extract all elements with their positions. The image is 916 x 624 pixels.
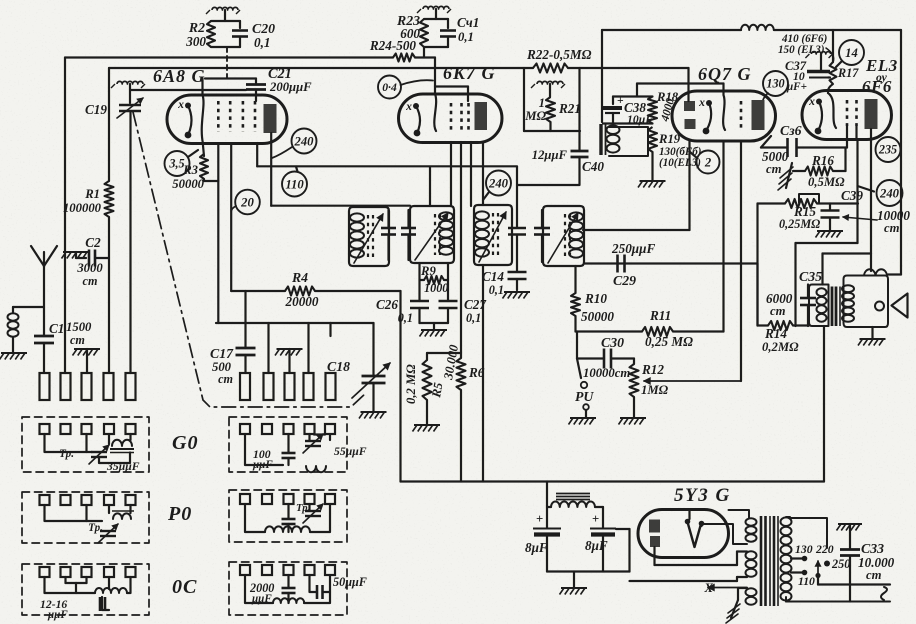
svg-text:R2: R2 <box>188 20 205 35</box>
svg-text:12μμF: 12μμF <box>532 148 568 162</box>
wire C38 box top <box>613 95 653 97</box>
terminal PU2 <box>583 404 589 410</box>
power transformer bobbin2 <box>737 550 747 552</box>
coil box B1 oscillator <box>349 207 389 266</box>
module OC-left pin1 <box>40 567 50 577</box>
wire R21 drop <box>523 68 525 131</box>
wire screen y205 <box>271 205 410 207</box>
resistor R17 <box>832 30 834 62</box>
OC-left caps <box>99 597 102 611</box>
coil out primary <box>817 288 827 296</box>
GO-right trimmer <box>305 440 321 442</box>
tube 6A8G grid1 wavy <box>202 79 204 144</box>
module PO-left pin2 <box>61 495 71 505</box>
OC-left coil <box>95 588 127 593</box>
wire pin3 stub <box>86 349 88 373</box>
wire y166 to IF <box>257 165 517 167</box>
wire grid1 top bar <box>205 77 256 79</box>
capacitor C29 <box>616 255 619 273</box>
svg-text:μμF: μμF <box>47 609 68 621</box>
PO-right trimmer <box>305 510 321 512</box>
svg-text:R19: R19 <box>658 132 681 146</box>
ground C19 top <box>117 81 143 84</box>
module GO-left pin4 <box>104 424 114 434</box>
resistor R12 pot <box>633 359 635 365</box>
svg-text:ст: ст <box>218 372 233 386</box>
pin P1-5 <box>126 373 136 400</box>
svg-text:Тр.: Тр. <box>88 522 103 534</box>
tube 6Q7G grid dashes <box>740 101 743 130</box>
svg-text:600: 600 <box>400 26 420 41</box>
terminal 250 dot <box>824 561 830 567</box>
coil box B2 oscillator <box>410 206 454 263</box>
module OC-left pin3 <box>82 567 92 577</box>
ground C33 <box>838 523 862 525</box>
module PO-left pin1 <box>40 495 50 505</box>
tube EL3 anode <box>865 99 878 129</box>
wire x758 drop <box>756 204 758 326</box>
svg-text:8μF: 8μF <box>525 540 548 555</box>
capacitor C36 <box>786 138 789 157</box>
wire EL3 anode down <box>870 129 872 140</box>
tube 5Y3G envelope <box>638 510 729 558</box>
wire C19 down to pin <box>129 111 131 373</box>
power transformer bobbin3 <box>746 588 757 596</box>
wire cap2 drop <box>602 507 604 528</box>
resistor R10 <box>571 293 580 316</box>
wire R2C20 top <box>224 10 226 21</box>
ground C18 <box>361 411 387 413</box>
capacitor C21 <box>255 79 257 84</box>
wire 20 tick <box>231 206 236 211</box>
pin P2-3 <box>285 373 295 400</box>
wire grid to R3 <box>203 144 204 157</box>
wire 5Y3G top right <box>729 510 750 518</box>
svg-text:Cз6: Cз6 <box>780 123 802 138</box>
wire C33 stem <box>849 524 851 549</box>
coil antenna small <box>12 307 14 313</box>
speaker cone <box>892 294 908 318</box>
tube EL3 grid dashes <box>846 100 849 126</box>
capacitor B2 tuning <box>407 210 409 227</box>
svg-text:R9: R9 <box>420 264 436 278</box>
wire R15 box <box>799 194 819 203</box>
resistor R23 <box>420 19 428 47</box>
label AC <box>881 587 887 600</box>
ground C26C27 <box>421 329 447 331</box>
svg-text:10000ст: 10000ст <box>583 366 630 380</box>
svg-text:1: 1 <box>539 96 545 110</box>
PO-left coil <box>112 510 134 512</box>
transformer out secondary box <box>844 276 889 328</box>
svg-text:Тр.: Тр. <box>296 503 310 514</box>
GO-right cap <box>282 452 296 455</box>
svg-text:200μμF: 200μμF <box>269 80 312 94</box>
svg-text:x: x <box>808 95 815 108</box>
capacitor C14 <box>516 262 518 271</box>
svg-text:C26: C26 <box>376 297 398 312</box>
module box GO-right <box>229 417 347 472</box>
module OC-left pin5 <box>126 567 136 577</box>
module PO-right pin3 <box>284 494 294 504</box>
wire C36 to R16 <box>844 148 846 172</box>
wire C40 jog y185 <box>517 184 579 186</box>
ground filter <box>573 572 575 588</box>
wire x517 drop <box>516 167 518 228</box>
OC-right cap2 <box>316 585 319 599</box>
svg-text:3,5: 3,5 <box>168 157 184 171</box>
antenna <box>43 266 45 336</box>
pin P2-5 <box>326 373 336 400</box>
svg-text:x: x <box>698 96 705 109</box>
wire C40 top <box>578 68 580 151</box>
svg-text:8μF: 8μF <box>585 538 608 553</box>
svg-text:240: 240 <box>879 186 900 200</box>
resistor R5 <box>426 353 428 360</box>
wire y68 into diode <box>687 68 689 101</box>
tube 5Y3G plates <box>649 520 660 533</box>
svg-text:μμF: μμF <box>252 459 273 471</box>
terminal PU <box>577 359 581 379</box>
capacitor C33 <box>840 548 860 551</box>
resistor R9 <box>424 276 444 284</box>
ground pin3 mid <box>74 348 100 350</box>
module OC-right pin1 <box>240 565 250 575</box>
tube 6Q7G diode plates <box>684 101 695 111</box>
wire anode lead <box>270 133 272 206</box>
svg-text:X: X <box>704 581 714 595</box>
capacitor B3 tuning <box>508 227 526 230</box>
svg-text:μF+: μF+ <box>786 81 807 93</box>
wire y230 det <box>583 229 690 231</box>
svg-text:55μμF: 55μμF <box>334 445 367 458</box>
svg-text:0,1: 0,1 <box>254 35 270 50</box>
ground R21 top <box>537 81 563 84</box>
wire stair y243 <box>796 242 858 244</box>
ground R16 slant <box>786 163 792 188</box>
circle 0-4 <box>378 76 401 99</box>
capacitor C38 <box>603 106 622 110</box>
svg-text:R16: R16 <box>811 153 834 168</box>
svg-text:ст: ст <box>770 304 786 318</box>
wire 6K7G pin1 <box>450 142 452 206</box>
module box PO-left <box>22 492 149 543</box>
svg-text:50μμF: 50μμF <box>333 575 367 589</box>
svg-text:0,1: 0,1 <box>398 311 413 325</box>
wire 14 tick <box>836 61 842 67</box>
module box GO-left <box>22 417 149 472</box>
resistor R2 <box>207 21 215 47</box>
OC-right wiring <box>245 575 273 603</box>
choke filter coil <box>547 506 551 508</box>
svg-text:2: 2 <box>704 155 712 169</box>
ground C39 <box>817 230 843 232</box>
GO-left wiring <box>45 434 87 452</box>
capacitor C30 <box>603 349 606 369</box>
circle 240 out <box>877 180 903 206</box>
wire anode stair drop <box>870 254 872 272</box>
wire 6Q7G top bracket <box>637 82 724 84</box>
svg-text:P0: P0 <box>167 503 192 525</box>
svg-text:300: 300 <box>185 34 206 49</box>
tube 6A8G grid dashes <box>217 101 220 132</box>
PO-right coil <box>265 526 310 532</box>
module OC-right pin3 <box>284 565 294 575</box>
wire 6Q7G pin3 down <box>740 141 742 381</box>
coil box B4 IF2 pri <box>543 206 584 266</box>
tube 6Q7G grid curve <box>723 84 725 131</box>
svg-text:0,1: 0,1 <box>466 311 481 325</box>
svg-text:R11: R11 <box>649 308 671 323</box>
wire stair x795 <box>794 243 796 326</box>
ground R19 <box>640 180 666 182</box>
wire grid entry <box>828 84 833 93</box>
svg-text:R10: R10 <box>584 291 607 306</box>
wire label curve <box>826 48 834 62</box>
resistor R21 <box>549 84 551 97</box>
module GO-left pin5 <box>126 424 136 434</box>
wire jog x757 <box>724 262 758 264</box>
coil choke top <box>741 25 774 30</box>
module GO-right pin5 <box>325 424 335 434</box>
resistor R11 <box>642 327 673 336</box>
wire left frame x65 <box>64 58 66 374</box>
speaker voice coil <box>864 269 887 275</box>
wire X arrow <box>708 587 747 589</box>
tube 6K7G grid dashes <box>450 103 453 133</box>
svg-text:0·4: 0·4 <box>382 81 397 94</box>
wire bottom rail <box>401 480 825 482</box>
capacitor C37 <box>807 70 830 74</box>
pin P1-3 <box>82 373 92 400</box>
wire anode diag C36 <box>761 136 771 148</box>
ground pin2-3 <box>277 348 303 350</box>
svg-text:110: 110 <box>798 575 815 588</box>
resistor R18 <box>648 97 657 124</box>
svg-text:0,25 МΩ: 0,25 МΩ <box>645 334 693 349</box>
tube 6K7G envelope <box>399 94 502 143</box>
capacitor B1 tuning <box>387 210 389 227</box>
resistor R15 <box>785 199 817 208</box>
pin P1-4 <box>104 373 114 400</box>
resistor R4 <box>285 287 315 296</box>
ground slant X <box>731 600 738 618</box>
wire pin4 lead <box>256 143 258 166</box>
wire 6K7G pin3 <box>470 142 472 206</box>
svg-text:0,5МΩ: 0,5МΩ <box>808 175 845 189</box>
gang dash-dot line <box>133 112 367 407</box>
wire tap 110 <box>791 571 802 573</box>
tube 6A8G anode <box>264 104 277 133</box>
svg-text:ст: ст <box>766 162 782 176</box>
OC-right cap <box>282 587 296 590</box>
GO-right wiring <box>245 434 283 465</box>
svg-text:0,1: 0,1 <box>489 283 504 297</box>
capacitor C2 <box>63 251 89 253</box>
svg-text:0C: 0C <box>172 576 197 598</box>
transformer out core <box>831 287 834 327</box>
svg-text:R1: R1 <box>84 187 100 201</box>
svg-text:МΩ: МΩ <box>524 109 546 123</box>
tube 6A8G envelope <box>167 95 287 144</box>
ground R5 <box>414 424 440 426</box>
module PO-right pin5 <box>325 494 335 504</box>
wire EL3 pin1 <box>846 126 848 148</box>
OC-right coil <box>273 598 304 603</box>
power transformer secondary <box>781 517 792 526</box>
wire 3,5 tick <box>188 150 198 157</box>
svg-text:R5: R5 <box>429 381 446 400</box>
module PO-right pin1 <box>240 494 250 504</box>
wire x401 main drop <box>399 291 401 482</box>
svg-text:0,2МΩ: 0,2МΩ <box>762 340 799 354</box>
module OC-left pin4 <box>104 567 114 577</box>
wire B2 grid up <box>429 167 431 206</box>
wire coil to mast <box>13 306 44 308</box>
module OC-right pin2 <box>262 565 272 575</box>
svg-text:6A8 G: 6A8 G <box>153 66 206 86</box>
tube EL3 grid curve <box>828 93 836 128</box>
wire C29 line <box>584 262 724 264</box>
ground antenna coil <box>1 352 27 354</box>
power transformer core <box>760 516 763 606</box>
wire C18 branch <box>331 322 374 324</box>
svg-text:C30: C30 <box>601 335 624 350</box>
tube 6Q7G filament <box>706 100 712 106</box>
wire mains line2 <box>786 601 890 603</box>
svg-text:100000: 100000 <box>63 201 102 215</box>
module PO-left pin3 <box>82 495 92 505</box>
circle 240 anode <box>292 129 317 154</box>
circle 3,5 <box>165 151 190 176</box>
svg-text:0,1: 0,1 <box>458 30 474 44</box>
ground speaker <box>871 327 873 338</box>
svg-text:x: x <box>177 98 184 111</box>
wire pin2-2 up <box>267 323 269 373</box>
resistor R22 on rail <box>533 64 568 73</box>
GO-left coil <box>112 440 132 446</box>
choke filter core <box>556 493 590 495</box>
svg-text:(10(EL3): (10(EL3) <box>659 157 701 169</box>
capacitor C41 <box>447 19 449 28</box>
wire R14 line <box>758 324 769 326</box>
wire stair x822 <box>821 254 823 285</box>
wire bobbin3 stub <box>738 587 747 589</box>
wire R15 branch <box>758 202 786 204</box>
pin P2-4 <box>304 373 314 400</box>
speaker circle <box>875 302 884 311</box>
ground C14 <box>504 291 530 293</box>
module OC-left pin2 <box>61 567 71 577</box>
wire C39 node right <box>830 202 858 204</box>
svg-text:235: 235 <box>878 143 897 157</box>
svg-text:240: 240 <box>488 176 509 190</box>
circle 20 <box>235 190 260 215</box>
wire 5Y3G fil out <box>700 524 702 526</box>
wire secondary top <box>786 517 827 548</box>
module GO-right pin2 <box>262 424 272 434</box>
wire R21 bottom bar <box>524 130 580 132</box>
PO-left wiring <box>45 505 87 521</box>
wire C37 stem <box>820 54 822 71</box>
wire R10 top <box>574 266 576 293</box>
capacitor C40 <box>571 150 589 153</box>
svg-text:1500: 1500 <box>66 320 92 334</box>
svg-text:C1: C1 <box>49 321 64 336</box>
wire 5Y3G fil stem <box>688 510 690 520</box>
wire R23C41 top <box>435 9 437 19</box>
wire R5R6 bracket <box>427 352 461 354</box>
svg-text:220: 220 <box>815 543 834 556</box>
circle 235 <box>876 137 901 162</box>
module GO-left pin2 <box>61 424 71 434</box>
trimmer C19 <box>129 84 131 103</box>
svg-text:ст: ст <box>884 221 900 235</box>
resistor R14 <box>768 321 793 330</box>
svg-text:130: 130 <box>766 77 784 91</box>
PO-right cap <box>282 518 296 521</box>
svg-text:50000: 50000 <box>581 309 614 324</box>
svg-text:C29: C29 <box>613 273 636 288</box>
wire bottom filter <box>547 570 630 572</box>
wire dashed drop x227 <box>226 47 228 79</box>
svg-text:R4: R4 <box>291 270 308 285</box>
wire long rail y68 <box>109 67 533 69</box>
pin P2-1 <box>240 373 250 400</box>
wire 240 tick <box>858 186 875 192</box>
wire C38 bar <box>603 122 653 124</box>
svg-text:0,2 МΩ: 0,2 МΩ <box>404 364 418 404</box>
module OC-right pin4 <box>305 565 315 575</box>
circle 14 <box>839 40 864 65</box>
resistor R19 <box>648 127 657 152</box>
svg-text:6Q7 G: 6Q7 G <box>698 64 752 84</box>
wire 6Q7G pin1 down <box>688 141 690 230</box>
wire mains line1 <box>818 583 890 585</box>
svg-text:μμF: μμF <box>251 593 272 605</box>
wire 6K7G anode drop <box>482 142 484 205</box>
circle 240 if <box>486 171 511 196</box>
svg-text:20000: 20000 <box>285 294 319 309</box>
wire tap 130 <box>791 557 802 559</box>
svg-text:110: 110 <box>285 177 304 191</box>
wire selector stem <box>817 576 819 585</box>
wire C26C27 join <box>420 322 449 324</box>
wire grid input y90 <box>131 89 247 91</box>
wire R4 rail <box>231 290 285 292</box>
module OC-right pin5 <box>325 565 335 575</box>
svg-text:Cч1: Cч1 <box>457 15 479 30</box>
wire R9 left <box>420 279 425 281</box>
wire R23 bottom <box>424 46 448 48</box>
wire 5Y3G plate lead <box>653 547 655 565</box>
wire pin2-4 up <box>307 323 309 373</box>
svg-text:x: x <box>405 100 412 113</box>
tube EL3 filament <box>816 99 822 105</box>
wire x824 drop <box>823 326 825 482</box>
tube 6K7G grid curve <box>434 58 436 132</box>
svg-text:ст: ст <box>70 333 85 347</box>
OC-left wiring <box>45 577 96 593</box>
svg-text:35μμF: 35μμF <box>106 460 140 473</box>
svg-text:0,25МΩ: 0,25МΩ <box>779 217 820 231</box>
svg-text:C35: C35 <box>799 269 822 284</box>
svg-text:240: 240 <box>293 134 314 148</box>
module GO-right pin3 <box>284 424 294 434</box>
tube EL3 envelope <box>802 91 891 140</box>
PO-right wiring <box>245 504 265 532</box>
capacitor C35 <box>807 285 809 298</box>
